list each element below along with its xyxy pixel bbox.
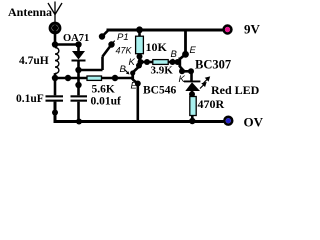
node A dot — [52, 41, 58, 47]
svg-text:E: E — [190, 45, 197, 56]
dot LED cathode — [189, 91, 195, 97]
svg-text:B: B — [120, 64, 127, 75]
transistor Q2 BC307 — [179, 31, 194, 81]
capacitor 0.1uF — [46, 78, 64, 122]
node C dot (inductor bottom) — [52, 75, 58, 81]
junction dot on wire — [65, 75, 71, 81]
wire node C to diode line — [55, 77, 87, 80]
wire 9V rail — [107, 29, 223, 32]
svg-text:47K: 47K — [116, 46, 133, 56]
collector vertical — [138, 62, 141, 67]
dot 3.9K right lead — [170, 59, 176, 65]
svg-text:4.7uH: 4.7uH — [19, 55, 49, 67]
LED arrows — [200, 77, 209, 88]
svg-text:K: K — [129, 57, 136, 68]
resistor 470R — [190, 94, 196, 122]
dot node collector/3.9K — [138, 59, 144, 65]
wire 3.9K left — [141, 61, 153, 64]
svg-text:470R: 470R — [198, 97, 225, 111]
wire node D to pot wiper — [79, 69, 103, 72]
capacitor 0.01uf — [71, 95, 88, 121]
svg-text:BC307: BC307 — [195, 57, 231, 71]
resistor 3.9K — [153, 60, 168, 65]
resistor 5.6K — [87, 76, 102, 80]
dot base wire — [112, 75, 118, 81]
collector diagonal — [180, 67, 184, 71]
potentiometer P1 arrow tip — [112, 41, 115, 45]
svg-text:P1: P1 — [117, 32, 129, 43]
dot on 0.01uf lead — [75, 82, 81, 88]
wire 3.9K right — [168, 61, 179, 64]
antenna symbol — [48, 2, 62, 26]
wire pot wiper vertical — [101, 57, 104, 71]
svg-text:Red LED: Red LED — [211, 83, 260, 97]
node B dot (diode anode) — [75, 41, 81, 47]
potentiometer P1 wiper diagonal — [103, 45, 112, 57]
dot BC307 base — [175, 59, 181, 65]
wire diode line down to 0.01uf — [77, 70, 80, 95]
svg-text:3.9K: 3.9K — [151, 65, 174, 77]
terminal 0V — [224, 117, 232, 125]
wire base BC546 from 5.6K — [102, 77, 132, 80]
emitter diagonal — [180, 54, 186, 59]
svg-text:Antenna: Antenna — [8, 5, 52, 19]
potentiometer P1 top diagonal to rail — [102, 31, 108, 37]
svg-text:E: E — [131, 81, 138, 92]
dot 10K bottom lead — [137, 54, 143, 60]
wire antenna ring to node A — [54, 31, 57, 45]
arrow B to base dot — [173, 59, 176, 62]
transistor Q1 BC546 — [130, 62, 142, 120]
resistor 10K — [136, 36, 144, 54]
svg-text:OV: OV — [244, 115, 264, 130]
antenna connector ring — [50, 23, 60, 33]
svg-text:5.6K: 5.6K — [92, 84, 115, 96]
svg-text:B: B — [171, 49, 178, 60]
base bar — [178, 58, 181, 68]
resistor 10K leads — [138, 30, 141, 37]
dot 0.01uf bottom lead on rail — [76, 119, 82, 125]
collector diagonal — [133, 67, 139, 73]
terminal 9V — [224, 26, 232, 34]
potentiometer P1 wiper dot — [108, 41, 114, 47]
dot 470R bottom on rail — [189, 118, 195, 124]
inductor L1 4.7uH — [55, 45, 59, 79]
wire node A to diode anode — [55, 43, 79, 46]
svg-text:OA71: OA71 — [63, 33, 89, 44]
svg-text:10K: 10K — [146, 40, 168, 54]
junction dot rail x139.5 — [136, 26, 143, 33]
svg-text:0.1uF: 0.1uF — [16, 93, 44, 105]
svg-text:9V: 9V — [244, 22, 261, 37]
svg-text:0.01uf: 0.01uf — [91, 96, 122, 108]
diode OA71 — [72, 45, 86, 71]
dot 3.9K left lead — [144, 59, 150, 65]
svg-text:BC546: BC546 — [143, 85, 176, 97]
emitter vertical to 0V rail — [137, 84, 140, 121]
potentiometer P1 top dot — [99, 33, 105, 39]
collector vertical down to LED — [190, 71, 193, 81]
dot 0.1uF bottom lead — [52, 110, 58, 116]
LED D2 red — [184, 81, 200, 94]
wire 0V rail — [55, 102, 224, 122]
emitter diagonal — [133, 80, 138, 84]
node D dot (diode cathode junction) — [75, 67, 81, 73]
collector horizontal — [182, 70, 191, 73]
base bar — [131, 72, 134, 81]
emitter vertical from rail — [184, 31, 187, 54]
svg-text:K: K — [179, 74, 186, 85]
arrow B to base wire — [125, 70, 129, 74]
